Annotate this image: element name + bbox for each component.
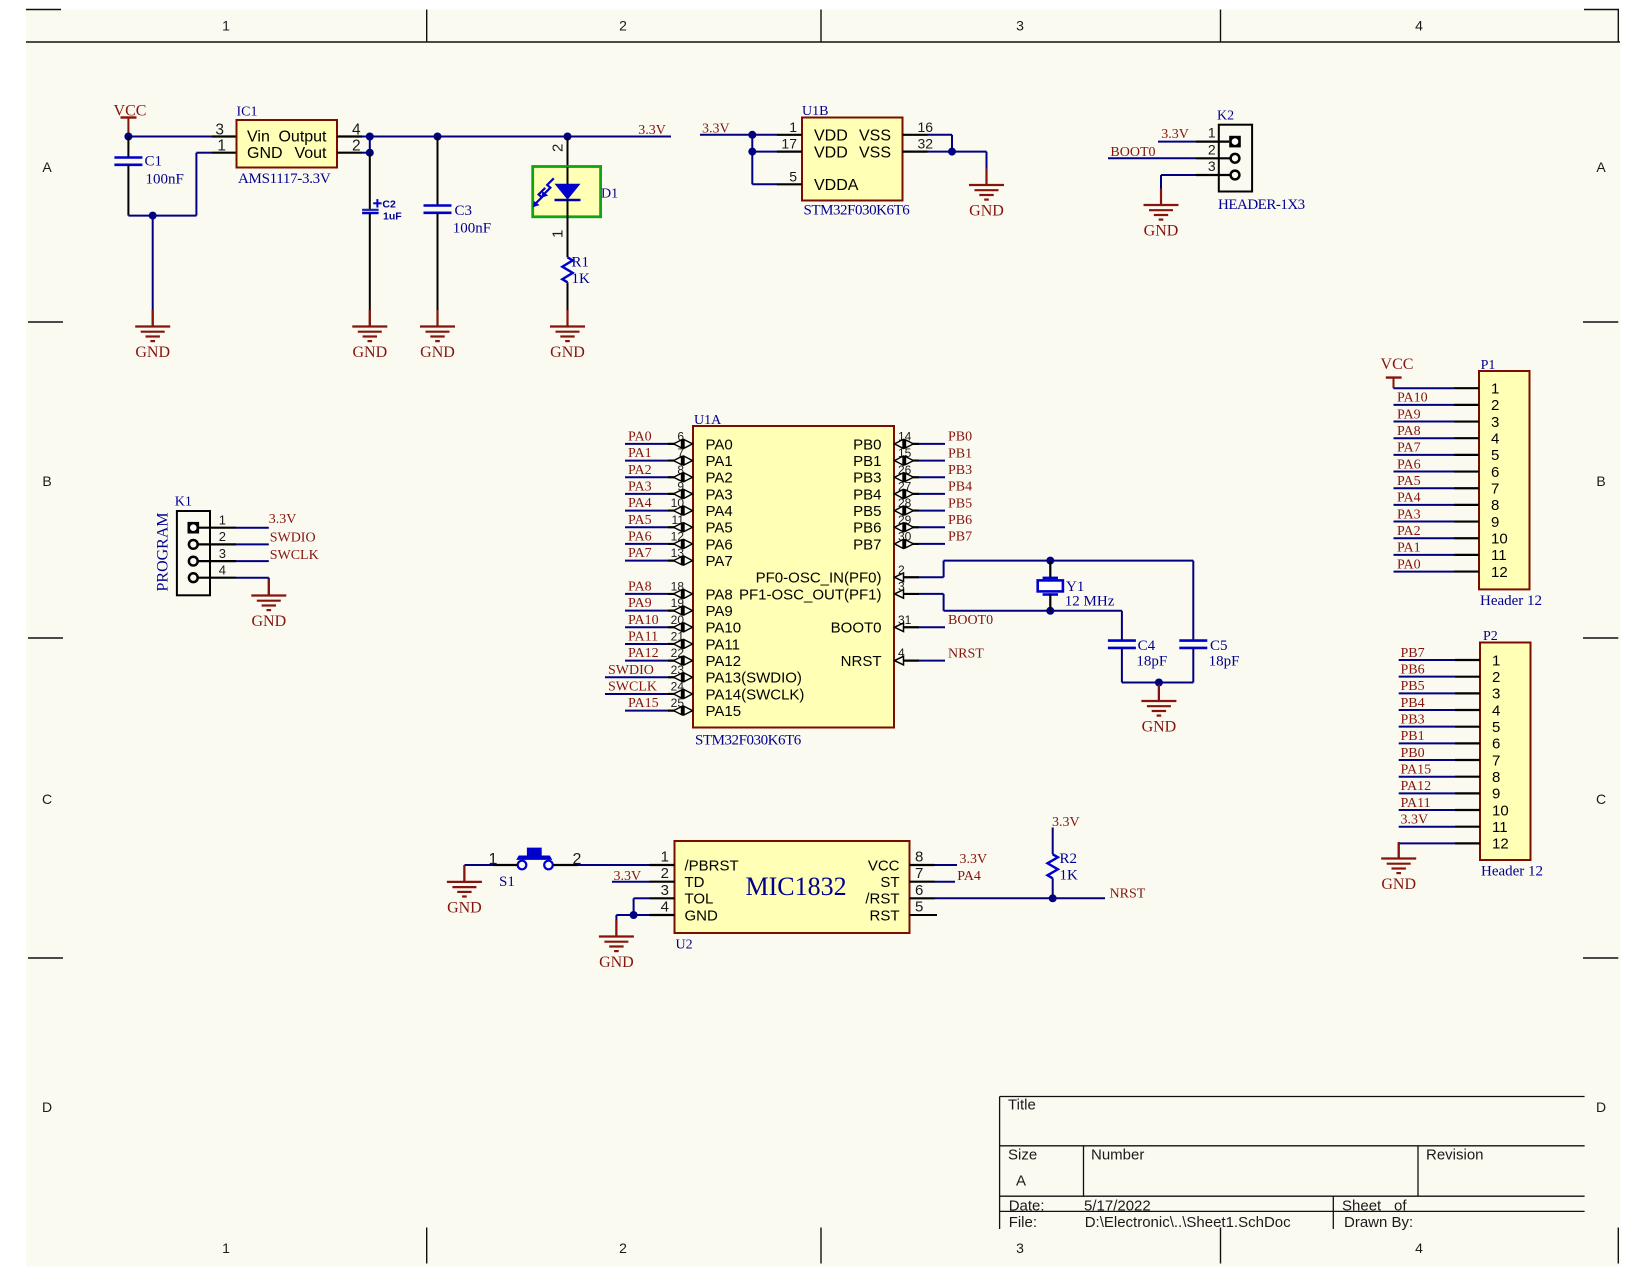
wire P1 pin 6 (1394, 471, 1455, 473)
svg-text:K1: K1 (175, 495, 192, 510)
svg-text:PA6: PA6 (1397, 457, 1421, 472)
svg-text:7: 7 (1491, 481, 1499, 498)
capacitor C5 18pF (1179, 639, 1207, 642)
ground GND (P2) (1398, 842, 1400, 859)
wire P2 pin 8 (1399, 776, 1455, 778)
svg-text:9: 9 (1492, 786, 1500, 803)
svg-text:ST: ST (880, 874, 899, 891)
svg-text:16: 16 (918, 119, 934, 135)
svg-text:12: 12 (1491, 564, 1508, 581)
svg-text:GND: GND (599, 954, 634, 971)
svg-text:VDD: VDD (814, 128, 848, 145)
svg-text:Number: Number (1091, 1147, 1144, 1164)
svg-text:PB3: PB3 (1401, 712, 1425, 727)
pin 1 pad of K2 (1229, 136, 1241, 148)
svg-text:11: 11 (1491, 547, 1507, 564)
wire P2 pin 6 (1399, 742, 1455, 744)
pin PA9 of U1A (674, 607, 682, 615)
svg-text:100nF: 100nF (146, 172, 184, 188)
svg-text:2: 2 (661, 865, 669, 882)
wire P1 pin 10 (1394, 537, 1455, 539)
svg-text:PB4: PB4 (853, 486, 881, 503)
svg-text:4: 4 (1415, 18, 1423, 34)
pin PA11 of U1A (674, 640, 682, 648)
junction VDD pin17 (748, 148, 756, 156)
svg-text:1: 1 (1208, 125, 1216, 141)
svg-text:Output: Output (278, 129, 327, 146)
svg-text:PB1: PB1 (853, 453, 881, 470)
svg-text:GND: GND (447, 899, 482, 916)
pin PB3 of U1A (906, 473, 914, 481)
svg-text:3.3V: 3.3V (269, 512, 297, 527)
svg-text:C4: C4 (1138, 638, 1156, 654)
wire net PB6 from U1A pin 29 (894, 526, 919, 528)
pushbutton S1 (518, 861, 527, 870)
svg-text:GND: GND (135, 344, 170, 361)
svg-text:U1B: U1B (802, 104, 828, 119)
svg-text:PA6: PA6 (628, 530, 652, 545)
svg-text:7: 7 (915, 865, 923, 882)
svg-text:PA7: PA7 (628, 546, 652, 561)
mcu power part U1B STM32F030K6T6 (802, 118, 903, 201)
svg-text:A: A (42, 159, 52, 175)
svg-text:MIC1832: MIC1832 (746, 872, 847, 901)
svg-text:PA11: PA11 (1401, 796, 1431, 811)
svg-text:1K: 1K (572, 271, 591, 287)
svg-text:100nF: 100nF (453, 221, 491, 237)
wire P2 pin 2 (1399, 676, 1455, 678)
svg-text:SWDIO: SWDIO (608, 663, 654, 678)
svg-text:1: 1 (219, 513, 226, 528)
wire P2 pin 3 (1399, 692, 1455, 694)
svg-text:8: 8 (1491, 497, 1499, 514)
wire K1 pin1 3.3V (198, 527, 236, 529)
svg-text:PA3: PA3 (1397, 507, 1421, 522)
svg-text:PA8: PA8 (628, 580, 652, 595)
ground GND (K2) (1160, 189, 1162, 206)
svg-text:6: 6 (1491, 464, 1499, 481)
svg-text:PA1: PA1 (706, 453, 733, 470)
svg-text:3.3V: 3.3V (1401, 813, 1429, 828)
svg-text:PB7: PB7 (1401, 646, 1425, 661)
svg-text:PA12: PA12 (628, 646, 659, 661)
resistor R1 1K (562, 257, 572, 282)
svg-text:Header 12: Header 12 (1480, 593, 1542, 609)
wire C1 bottom to IC1 pin1 branch (128, 215, 196, 217)
svg-text:PA4: PA4 (706, 503, 733, 520)
svg-text:C: C (42, 791, 52, 807)
svg-text:PA4: PA4 (628, 496, 652, 511)
wire to ground (152, 216, 154, 326)
svg-text:Sheet: Sheet (1342, 1197, 1382, 1214)
svg-text:3: 3 (1016, 18, 1024, 34)
svg-text:4: 4 (1492, 702, 1500, 719)
svg-text:18pF: 18pF (1136, 654, 1167, 670)
wire P1 pin 5 (1394, 454, 1455, 456)
wire 3.3V to K2 pin1 (1158, 141, 1196, 143)
svg-text:PA0: PA0 (1397, 557, 1421, 572)
svg-text:TOL: TOL (685, 891, 714, 908)
pin 3 pad of K1 (189, 557, 198, 566)
svg-text:10: 10 (1491, 531, 1508, 548)
wire P2 pin 12 (1399, 842, 1455, 844)
svg-text:3: 3 (1492, 686, 1500, 703)
wire P2 pin 10 (1399, 809, 1455, 811)
svg-text:GND: GND (352, 344, 387, 361)
svg-text:BOOT0: BOOT0 (831, 620, 882, 637)
svg-text:SWCLK: SWCLK (608, 680, 657, 695)
wire net PB0 from U1A pin 14 (894, 443, 919, 445)
wire P2 pin 9 (1399, 792, 1455, 794)
svg-text:PA0: PA0 (706, 436, 733, 453)
pin PA0 of U1A (674, 440, 682, 448)
svg-text:1: 1 (217, 138, 226, 155)
wire net PA0 to U1A pin 6 (625, 443, 668, 445)
svg-text:PA15: PA15 (1401, 762, 1432, 777)
svg-text:10: 10 (1492, 802, 1509, 819)
svg-text:PA15: PA15 (628, 696, 659, 711)
pin PB6 of U1A (906, 523, 914, 531)
svg-text:PB0: PB0 (853, 436, 881, 453)
wire P2 pin12 to ground (1398, 843, 1400, 857)
svg-text:11: 11 (1492, 819, 1508, 836)
pin BOOT0 of U1A (895, 623, 904, 632)
svg-text:6: 6 (915, 882, 923, 899)
svg-text:3.3V: 3.3V (960, 852, 988, 867)
svg-text:1: 1 (550, 230, 567, 238)
svg-text:4: 4 (1415, 1240, 1423, 1256)
svg-text:D: D (42, 1099, 52, 1115)
svg-text:PA8: PA8 (1397, 424, 1421, 439)
wire P1 pin 4 (1394, 437, 1455, 439)
ground GND (U1B) (985, 169, 987, 186)
wire R1 to ground (567, 282, 569, 325)
svg-text:D:\Electronic\..\Sheet1.SchDoc: D:\Electronic\..\Sheet1.SchDoc (1085, 1214, 1291, 1231)
svg-text:PA13(SWDIO): PA13(SWDIO) (706, 670, 802, 687)
svg-text:2: 2 (1492, 669, 1500, 686)
svg-text:3: 3 (1491, 414, 1499, 431)
svg-text:C3: C3 (455, 203, 473, 219)
svg-text:4: 4 (661, 899, 669, 916)
wire P1 pin 11 (1394, 554, 1455, 556)
svg-text:RST: RST (870, 907, 900, 924)
svg-text:12 MHz: 12 MHz (1065, 593, 1115, 609)
svg-text:5: 5 (1491, 447, 1499, 464)
svg-text:AMS1117-3.3V: AMS1117-3.3V (238, 171, 331, 187)
svg-text:PA11: PA11 (706, 636, 740, 653)
wire PF0 to crystal top (894, 576, 919, 578)
wire C5 to ground rail (1192, 648, 1194, 683)
wire net SWCLK to U1A pin 24 (605, 693, 668, 695)
svg-text:1: 1 (661, 849, 669, 866)
svg-text:5: 5 (789, 168, 797, 184)
pin PA4 of U1A (674, 507, 682, 515)
wire 3.3V to U1B VDD pins (700, 134, 777, 136)
svg-text:GND: GND (550, 344, 585, 361)
svg-text:Size: Size (1008, 1147, 1037, 1164)
svg-text:2: 2 (898, 563, 905, 577)
wire U2 TOL to GND net (634, 897, 650, 899)
svg-text:SWDIO: SWDIO (270, 530, 316, 545)
wire NRST (U1A) (894, 660, 919, 662)
svg-text:3: 3 (898, 580, 905, 594)
svg-text:8: 8 (1492, 769, 1500, 786)
wire net PB4 from U1A pin 27 (894, 493, 919, 495)
svg-text:18pF: 18pF (1209, 654, 1240, 670)
svg-text:PF0-OSC_IN(PF0): PF0-OSC_IN(PF0) (756, 570, 882, 587)
svg-text:1K: 1K (1060, 868, 1079, 884)
svg-text:3: 3 (661, 882, 669, 899)
pin 3 pad of K2 (1231, 171, 1240, 180)
pin PA8 of U1A (674, 590, 682, 598)
svg-text:/RST: /RST (865, 891, 899, 908)
svg-text:A: A (1016, 1173, 1026, 1190)
pin PA1 of U1A (674, 457, 682, 465)
junction crystal bottom (1046, 607, 1054, 615)
mcu U1A STM32F030K6T6 (693, 426, 894, 728)
svg-text:R1: R1 (572, 255, 590, 271)
svg-text:VCC: VCC (1381, 356, 1414, 373)
ground GND (C2) (369, 310, 371, 327)
LED D1 (533, 167, 601, 217)
wire VSS pins to ground (903, 134, 928, 136)
svg-text:5: 5 (915, 899, 923, 916)
svg-text:Date:: Date: (1009, 1197, 1045, 1214)
svg-text:6: 6 (1492, 736, 1500, 753)
svg-text:PB4: PB4 (948, 480, 972, 495)
svg-text:PB6: PB6 (853, 520, 881, 537)
wire 3.3V to U2 TD (612, 881, 650, 883)
junction crystal top (1046, 557, 1054, 565)
wire S1 pin2 to U2 /PBRST (553, 864, 578, 866)
ground GND (oscillator) (1158, 685, 1160, 702)
pin PA12 of U1A (674, 657, 682, 665)
svg-text:1: 1 (222, 18, 230, 34)
svg-text:HEADER-1X3: HEADER-1X3 (1218, 197, 1305, 213)
svg-text:PA14(SWCLK): PA14(SWCLK) (706, 686, 805, 703)
resistor R2 1K (1048, 854, 1058, 878)
svg-text:PB7: PB7 (853, 536, 881, 553)
svg-text:STM32F030K6T6: STM32F030K6T6 (695, 733, 802, 749)
wire K1 pin2 SWDIO (198, 543, 236, 545)
pin PA13(SWDIO) of U1A (674, 673, 682, 681)
svg-text:2: 2 (550, 144, 567, 152)
wire C2 to ground (369, 213, 371, 326)
pin PB7 of U1A (906, 540, 914, 548)
ground GND (C3) (436, 310, 438, 327)
svg-text:U1A: U1A (694, 413, 722, 428)
wire C4 to ground rail (1121, 648, 1123, 683)
svg-text:NRST: NRST (841, 653, 882, 670)
svg-text:2: 2 (219, 529, 226, 544)
wire net PA1 to U1A pin 7 (625, 460, 668, 462)
svg-text:PA11: PA11 (628, 630, 658, 645)
capacitor C4 18pF (1108, 639, 1136, 642)
svg-text:C: C (1596, 791, 1606, 807)
svg-text:Drawn By:: Drawn By: (1344, 1214, 1413, 1231)
svg-text:PA2: PA2 (1397, 524, 1421, 539)
svg-text:VSS: VSS (859, 128, 891, 145)
svg-text:PB5: PB5 (1401, 679, 1425, 694)
wire net PA2 to U1A pin 8 (625, 476, 668, 478)
junction NRST/R2 (1049, 894, 1057, 902)
wire P2 pin 5 (1399, 726, 1455, 728)
svg-text:3.3V: 3.3V (638, 123, 666, 138)
wire P2 pin 4 (1399, 709, 1455, 711)
svg-text:PB1: PB1 (948, 446, 972, 461)
svg-text:PB0: PB0 (948, 430, 972, 445)
svg-text:R2: R2 (1060, 851, 1078, 867)
svg-text:U2: U2 (676, 938, 693, 953)
wire U2 /RST NRST (910, 897, 935, 899)
svg-text:TD: TD (685, 874, 705, 891)
wire P2 pin 7 (1399, 759, 1455, 761)
wire VCC to IC1 pin3 (128, 136, 212, 138)
pin PA15 of U1A (674, 707, 682, 715)
pin PB1 of U1A (906, 457, 914, 465)
svg-text:PA12: PA12 (1401, 779, 1432, 794)
wire net PB7 from U1A pin 30 (894, 543, 919, 545)
pin PA10 of U1A (674, 623, 682, 631)
svg-text:PA9: PA9 (628, 596, 652, 611)
svg-text:Header 12: Header 12 (1481, 864, 1543, 880)
wire BOOT0 (U1A) (894, 626, 919, 628)
svg-text:GND: GND (1381, 876, 1416, 893)
svg-text:PA0: PA0 (628, 430, 652, 445)
svg-text:PB5: PB5 (948, 496, 972, 511)
svg-text:PB3: PB3 (853, 470, 881, 487)
junction C3 (434, 133, 442, 141)
svg-text:2: 2 (619, 1240, 627, 1256)
wire K1 pin3 SWCLK (198, 560, 236, 562)
pin PA14(SWCLK) of U1A (674, 690, 682, 698)
svg-text:GND: GND (685, 907, 719, 924)
wire to LED D1 (567, 137, 569, 168)
svg-text:PA5: PA5 (706, 520, 733, 537)
wire D1 to R1 (567, 216, 569, 257)
wire crystal top to C5 (1192, 561, 1194, 641)
wire U2 VCC 3.3V (910, 864, 935, 866)
wire R2 to NRST (1052, 878, 1054, 898)
svg-text:VCC: VCC (868, 857, 900, 874)
wire P2 pin 1 (1399, 659, 1455, 661)
svg-text:PA2: PA2 (706, 470, 733, 487)
svg-text:PA4: PA4 (1397, 491, 1421, 506)
pin PB4 of U1A (906, 490, 914, 498)
svg-text:PA1: PA1 (628, 446, 652, 461)
svg-text:PA3: PA3 (706, 486, 733, 503)
svg-text:PB7: PB7 (948, 530, 972, 545)
svg-text:2: 2 (1208, 141, 1216, 157)
svg-text:PA4: PA4 (957, 869, 981, 884)
svg-text:PB6: PB6 (948, 513, 972, 528)
svg-text:B: B (42, 473, 51, 489)
junction pin2/C2 (366, 149, 374, 157)
wire P1 pin 3 (1394, 421, 1455, 423)
ground GND (K1) (268, 579, 270, 596)
wire P1 pin 7 (1394, 487, 1455, 489)
svg-text:1uF: 1uF (383, 210, 402, 222)
svg-text:1: 1 (222, 1240, 230, 1256)
wire K2 pin3 to ground (1196, 174, 1231, 176)
pin PB0 of U1A (906, 440, 914, 448)
svg-text:K2: K2 (1217, 109, 1234, 124)
wire net PA15 to U1A pin 25 (625, 710, 668, 712)
pin 1 pad of K1 (188, 522, 200, 534)
wire net PA8 to U1A pin 18 (625, 593, 668, 595)
svg-text:3.3V: 3.3V (1161, 127, 1189, 142)
svg-text:/PBRST: /PBRST (685, 857, 739, 874)
svg-text:C2: C2 (382, 199, 396, 211)
junction at VCC/C1 (124, 133, 132, 141)
junction VSS (948, 148, 956, 156)
svg-text:4: 4 (219, 563, 226, 578)
svg-text:D1: D1 (601, 187, 618, 202)
wire net PA7 to U1A pin 13 (625, 560, 668, 562)
pin PA7 of U1A (674, 557, 682, 565)
svg-text:D: D (1596, 1099, 1606, 1115)
svg-text:GND: GND (1144, 223, 1179, 240)
svg-text:SWCLK: SWCLK (270, 548, 319, 563)
svg-text:3: 3 (1208, 158, 1216, 174)
wire net PA6 to U1A pin 12 (625, 543, 668, 545)
junction pin4/C2 (366, 133, 374, 141)
svg-text:32: 32 (918, 136, 934, 152)
svg-text:NRST: NRST (948, 646, 984, 661)
svg-text:PB4: PB4 (1401, 696, 1425, 711)
wire crystal bottom to C4 (1121, 611, 1123, 641)
wire IC1 pin2 Vout (337, 152, 362, 154)
svg-text:PA5: PA5 (1397, 474, 1421, 489)
svg-text:STM32F030K6T6: STM32F030K6T6 (804, 203, 911, 219)
wire 3.3V to R2 (1052, 828, 1054, 855)
capacitor C1 (127, 137, 129, 158)
svg-text:GND: GND (251, 613, 286, 630)
wire 3.3V rail from IC1 pin4 (337, 135, 362, 137)
svg-text:PA7: PA7 (706, 553, 733, 570)
svg-text:7: 7 (1492, 752, 1500, 769)
svg-text:VDDA: VDDA (814, 177, 859, 194)
svg-text:A: A (1596, 159, 1606, 175)
capacitor C3 100nF (437, 137, 439, 206)
pin NRST of U1A (895, 656, 904, 665)
svg-text:S1: S1 (499, 874, 515, 890)
wire S1 pin1 to ground (464, 864, 493, 866)
svg-text:2: 2 (619, 18, 627, 34)
svg-text:PB6: PB6 (1401, 662, 1425, 677)
pin RST stub of U2 (910, 914, 938, 916)
svg-text:3: 3 (219, 546, 226, 561)
svg-text:3.3V: 3.3V (1052, 815, 1080, 830)
wire net SWDIO to U1A pin 23 (605, 676, 668, 678)
pin 2 pad of K1 (189, 540, 198, 549)
wire P1 pin 8 (1394, 504, 1455, 506)
svg-text:Revision: Revision (1426, 1147, 1484, 1164)
wire P1 pin 1 (1394, 387, 1455, 389)
svg-text:PROGRAM: PROGRAM (155, 512, 172, 591)
wire P1 pin 2 (1394, 404, 1455, 406)
pin 4 pad of K1 (189, 573, 198, 582)
wire to ground (oscillator) (1158, 683, 1160, 701)
svg-text:Vin: Vin (247, 129, 270, 146)
svg-text:4: 4 (1491, 431, 1499, 448)
wire P1 pin 9 (1394, 521, 1455, 523)
pin PF1-OSC_OUT(PF1) of U1A (895, 590, 904, 599)
ground GND (C1) (152, 310, 154, 327)
ground GND (U2) (615, 920, 617, 937)
svg-text:BOOT0: BOOT0 (948, 613, 993, 628)
svg-text:PA12: PA12 (706, 653, 742, 670)
